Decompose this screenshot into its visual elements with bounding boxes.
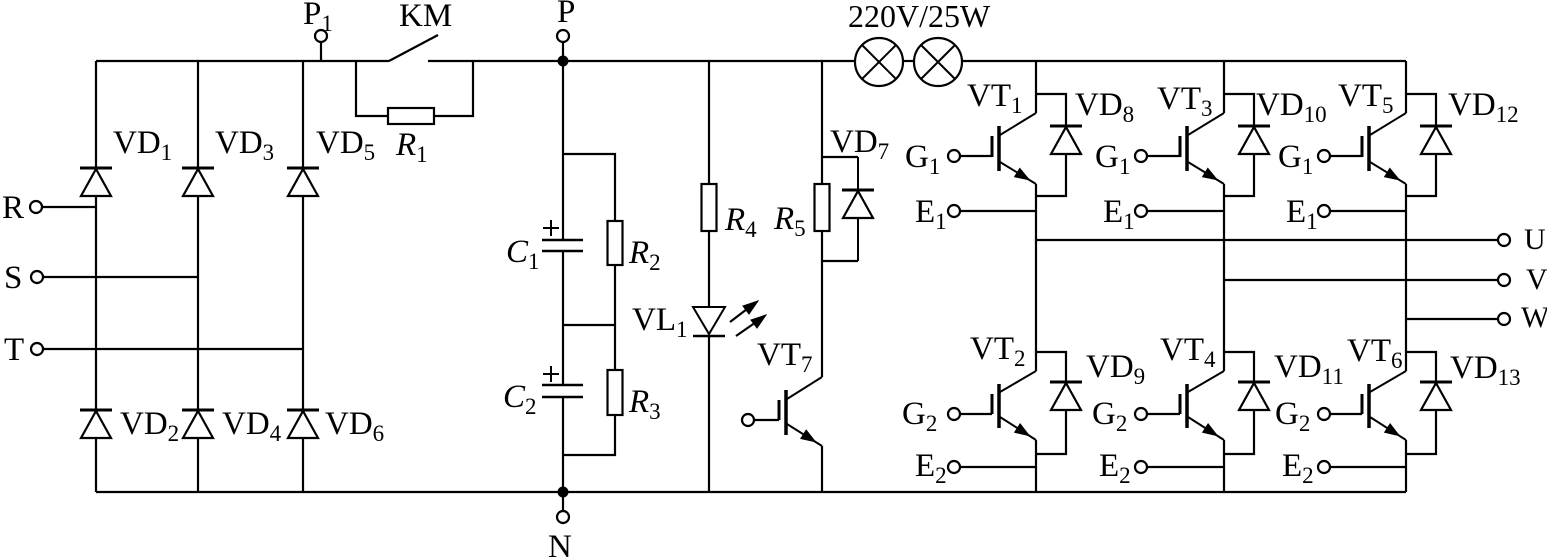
diode VD5 — [287, 167, 319, 170]
capacitor C2 plus sign — [550, 366, 552, 382]
wire rectifier column 1 middle segment — [95, 196, 97, 410]
wire N stem — [562, 492, 564, 511]
lamp 2 (220V/25W) — [914, 38, 962, 86]
wire midpoint to R3 — [614, 325, 616, 370]
junction dot at P — [558, 56, 569, 67]
wire VT7 emitter to bottom rail — [821, 446, 823, 492]
terminal E1 circle (VT1) — [948, 205, 960, 217]
wire output U — [1036, 239, 1498, 241]
svg-text:P: P — [557, 0, 575, 30]
wire T input — [43, 348, 303, 350]
terminal R circle — [30, 201, 42, 213]
LED VL1 — [693, 307, 725, 334]
svg-text:W: W — [1521, 301, 1547, 334]
wire VL1 to bottom rail — [708, 336, 710, 492]
diode VD8 — [1050, 125, 1082, 128]
svg-text:N: N — [548, 529, 572, 559]
diode VD6 — [287, 409, 319, 412]
wire E2 lead (VT4) — [1147, 466, 1224, 468]
wire R2 to midpoint — [563, 265, 615, 325]
svg-text:V: V — [1526, 263, 1547, 296]
wire leg 1 top — [1035, 61, 1037, 113]
wire rectifier column 2 upper segment — [197, 61, 199, 168]
terminal E2 circle (VT4) — [1135, 461, 1147, 473]
terminal T circle — [31, 343, 43, 355]
LED VL1 light arrow 1 — [730, 306, 751, 322]
diode VD3 — [182, 167, 214, 170]
wire G2 lead (VT4) — [1147, 413, 1180, 415]
terminal G1 circle (VT5) — [1318, 150, 1330, 162]
transistor VT2 — [997, 384, 1001, 428]
wire G1 lead (VT5) — [1330, 155, 1362, 157]
wire E1 lead (VT5) — [1330, 210, 1406, 212]
wire leg 3 middle — [1405, 184, 1407, 371]
resistor R2 — [608, 221, 623, 265]
diode VD13 branch wiring — [1406, 352, 1436, 382]
wire R1 right vertical — [434, 61, 473, 116]
wire P1 stem — [320, 42, 322, 61]
wire rectifier column 2 lower segment — [197, 438, 199, 492]
terminal W circle — [1498, 313, 1510, 325]
wire C1 to C2 — [562, 251, 564, 385]
terminal P circle — [557, 30, 569, 42]
terminal N circle — [557, 511, 569, 523]
terminal G2 circle (VT4) — [1135, 408, 1147, 420]
wire E2 lead (VT6) — [1330, 466, 1406, 468]
wire bottom rail (N bus) — [96, 491, 1406, 493]
terminal G1 circle (VT3) — [1135, 150, 1147, 162]
capacitor C1 — [542, 239, 583, 241]
svg-text:S: S — [4, 260, 22, 296]
diode VD9 — [1050, 381, 1082, 384]
wire leg 3 bottom — [1405, 440, 1407, 492]
diode VD4 — [182, 409, 214, 412]
wire leg 1 bottom — [1035, 440, 1037, 492]
svg-text:R: R — [2, 190, 24, 226]
wire R3 bottom branch — [563, 415, 615, 455]
diode VD8 branch wiring — [1036, 94, 1066, 126]
transistor VT7 — [784, 390, 788, 435]
diode VD9 branch wiring — [1036, 352, 1066, 382]
wire top rail to R5 branch — [821, 61, 823, 157]
wire leg 2 bottom — [1223, 440, 1225, 492]
wire S input — [43, 276, 198, 278]
wire R input — [42, 206, 96, 208]
diode VD1 — [80, 167, 112, 170]
terminal S circle — [31, 271, 43, 283]
resistor R4 — [702, 184, 717, 231]
terminal E1 circle (VT5) — [1318, 205, 1330, 217]
wire top rail to R4 — [708, 61, 710, 184]
wire rectifier column 3 middle segment — [302, 196, 304, 410]
lamp 1 (220V/25W) — [855, 38, 903, 86]
svg-text:T: T — [4, 332, 24, 368]
wire VD7 junction to VT7 collector — [821, 261, 823, 377]
transistor VT4 — [1185, 384, 1189, 428]
wire top rail middle segment — [428, 60, 855, 62]
wire rectifier column 3 upper segment — [302, 61, 304, 168]
terminal E1 circle (VT3) — [1135, 205, 1147, 217]
terminal E2 circle (VT2) — [948, 461, 960, 473]
wire P to C1 — [562, 61, 564, 240]
terminal U circle — [1498, 234, 1510, 246]
wire branch to R5 — [821, 157, 823, 184]
wire VT7 gate lead — [754, 419, 779, 421]
wire G2 lead (VT2) — [960, 413, 992, 415]
wire E2 lead (VT2) — [960, 466, 1036, 468]
diode VD7 — [857, 157, 859, 190]
wire P stem — [562, 42, 564, 61]
wire rectifier column 3 lower segment — [302, 438, 304, 492]
wire rectifier column 1 lower segment — [95, 438, 97, 492]
wire R5-VD7 bottom branch — [822, 260, 858, 262]
wire R5-VD7 top branch — [822, 156, 858, 158]
diode VD10 — [1238, 125, 1270, 128]
wire C2 to N rail — [562, 397, 564, 492]
wire rectifier column 1 upper segment — [95, 61, 97, 168]
diode VD11 branch wiring — [1224, 352, 1254, 382]
switch KM blade — [389, 35, 438, 61]
wire rectifier column 2 middle segment — [197, 196, 199, 410]
wire leg 3 top — [1405, 61, 1407, 113]
svg-text:220V/25W: 220V/25W — [848, 0, 991, 34]
svg-text:U: U — [1524, 223, 1546, 256]
wire top rail between lamps — [903, 60, 914, 62]
diode VD13 — [1420, 381, 1452, 384]
terminal V circle — [1498, 274, 1510, 286]
svg-text:KM: KM — [399, 0, 452, 34]
diode VD11 — [1238, 381, 1270, 384]
transistor VT3 — [1185, 126, 1189, 171]
diode VD12 branch wiring — [1406, 94, 1436, 126]
wire leg 2 top — [1223, 61, 1225, 113]
terminal G1 circle (VT1) — [948, 150, 960, 162]
wire output V — [1224, 279, 1498, 281]
resistor R5 — [815, 184, 830, 231]
transistor VT6 — [1367, 384, 1371, 428]
wire output W — [1406, 318, 1498, 320]
transistor VT1 — [997, 126, 1001, 171]
wire R1 left vertical — [356, 61, 388, 116]
wire leg 1 middle — [1035, 184, 1037, 371]
capacitor C2 — [542, 384, 583, 386]
diode VD10 branch wiring — [1224, 94, 1254, 126]
wire E1 lead (VT1) — [960, 210, 1036, 212]
LED VL1 light arrow 2 — [736, 320, 759, 336]
terminal VT7 gate circle — [742, 414, 754, 426]
terminal G2 circle (VT2) — [948, 408, 960, 420]
resistor R3 — [608, 370, 623, 415]
terminal G2 circle (VT6) — [1318, 408, 1330, 420]
transistor VT5 — [1367, 126, 1371, 171]
wire G1 lead (VT1) — [960, 155, 992, 157]
wire E1 lead (VT3) — [1147, 210, 1224, 212]
wire branch to R2 — [563, 154, 615, 221]
resistor R1 — [388, 108, 434, 124]
wire G2 lead (VT6) — [1330, 413, 1362, 415]
junction dot at N — [558, 487, 569, 498]
wire top rail left segment (P bus) — [96, 60, 389, 62]
capacitor C1 plus sign — [550, 220, 552, 236]
terminal E2 circle (VT6) — [1318, 461, 1330, 473]
wire top rail right segment — [962, 60, 1406, 62]
wire R4 to VL1 — [708, 231, 710, 307]
wire leg 2 middle — [1223, 184, 1225, 371]
terminal P1 circle — [315, 30, 327, 42]
wire R5 bottom — [821, 231, 823, 261]
diode VD2 — [80, 409, 112, 412]
wire G1 lead (VT3) — [1147, 155, 1180, 157]
diode VD12 — [1420, 125, 1452, 128]
